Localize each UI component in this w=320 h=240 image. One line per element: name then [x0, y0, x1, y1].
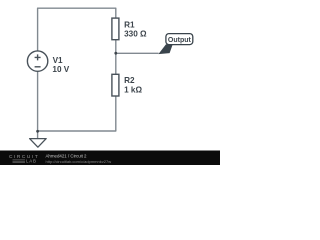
wire: R2 bottom down and left along bottom: [38, 96, 116, 131]
wire: V1 bottom down to ground: [37, 72, 39, 139]
output flag tail: [158, 44, 172, 54]
junction node at R1/R2/output: [114, 52, 117, 55]
footer bar: [0, 151, 220, 166]
svg-text:Output: Output: [168, 35, 191, 44]
svg-text:LAB: LAB: [26, 159, 37, 164]
svg-text:V1: V1: [53, 56, 63, 65]
footer logo LAB: [13, 160, 26, 163]
svg-text:R2: R2: [124, 76, 135, 85]
svg-text:http://circuitlab.com/c/adpmmn: http://circuitlab.com/c/adpmmnkv27w: [46, 159, 112, 164]
voltage source V1: [27, 51, 47, 71]
svg-text:R1: R1: [124, 20, 135, 29]
svg-text:330 Ω: 330 Ω: [124, 30, 147, 39]
resistor R2: [112, 74, 119, 96]
svg-text:1 kΩ: 1 kΩ: [124, 86, 142, 95]
label R1 value: [124, 20, 147, 38]
svg-text:10 V: 10 V: [52, 65, 69, 74]
label R2 value: [124, 76, 142, 94]
resistor R1: [112, 18, 119, 40]
wire: left vertical + top horizontal + right drop into R1: [38, 8, 116, 51]
wire: R1 bottom to R2 top through junction: [115, 40, 117, 75]
wire: junction to Output flag: [116, 52, 159, 54]
junction node at V1/bottom wire: [36, 130, 39, 133]
ground: [30, 139, 47, 148]
label V1 value: [52, 56, 69, 74]
output flag box: [166, 34, 193, 45]
